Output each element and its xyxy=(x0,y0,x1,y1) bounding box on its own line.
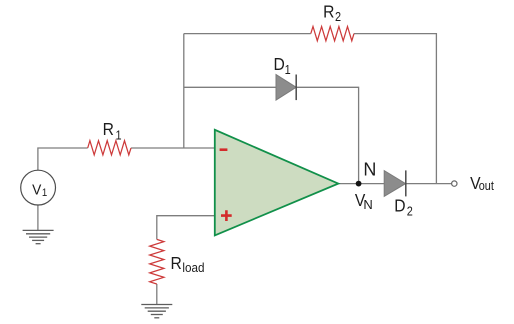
wire D1 branch left xyxy=(184,86,276,88)
Vout terminal xyxy=(452,181,457,186)
svg-text:N: N xyxy=(363,197,372,212)
svg-text:D: D xyxy=(394,196,405,216)
svg-text:2: 2 xyxy=(335,9,341,24)
svg-text:2: 2 xyxy=(407,204,413,219)
resistor Rload xyxy=(150,239,164,284)
svg-text:1: 1 xyxy=(116,127,122,142)
svg-text:D: D xyxy=(274,54,285,74)
wire R1 to op-amp minus input xyxy=(131,147,215,149)
resistor R1 xyxy=(88,141,131,155)
wire vertical feedback node line xyxy=(183,34,185,148)
wire V1 bottom to ground xyxy=(37,205,39,230)
diode D1 xyxy=(276,75,296,101)
svg-text:1: 1 xyxy=(42,188,48,200)
op-amp minus input symbol xyxy=(220,148,228,151)
source V1 xyxy=(21,170,56,205)
svg-text:N: N xyxy=(363,159,376,179)
wire op-amp output to D2 xyxy=(338,183,384,185)
ground under Rload xyxy=(141,305,172,318)
wire top feedback right segment and down to output xyxy=(354,34,436,184)
diode D2 xyxy=(384,170,406,196)
svg-text:V: V xyxy=(32,182,42,199)
resistor R2 xyxy=(311,27,354,41)
wire D1 branch right and down to node N xyxy=(296,87,358,183)
svg-text:load: load xyxy=(182,260,204,275)
svg-text:R: R xyxy=(171,253,182,273)
op-amp plus input symbol xyxy=(221,210,232,221)
wire Rload to ground xyxy=(156,284,158,304)
op-amp U1 xyxy=(215,130,338,236)
svg-text:R: R xyxy=(103,119,114,139)
wire D2 to Vout terminal xyxy=(406,183,452,185)
node N junction dot xyxy=(356,181,362,187)
wire from V1 top to R1 xyxy=(38,148,88,170)
wire top feedback left segment xyxy=(184,33,311,35)
wire plus input to Rload xyxy=(157,216,215,240)
svg-text:1: 1 xyxy=(285,62,291,77)
ground under V1 xyxy=(23,230,54,243)
svg-text:out: out xyxy=(479,178,495,193)
svg-text:R: R xyxy=(323,1,334,21)
